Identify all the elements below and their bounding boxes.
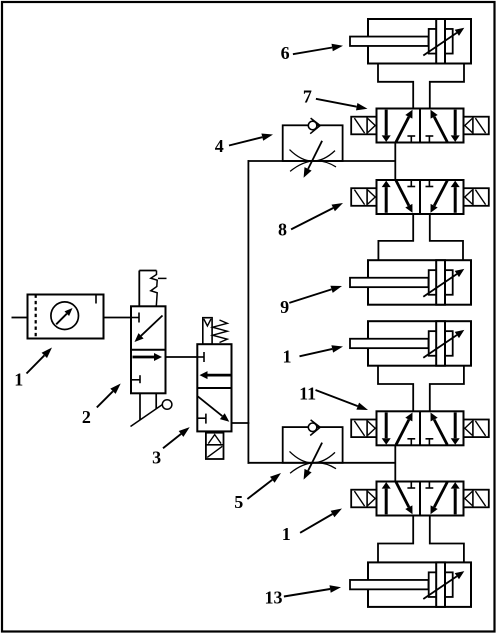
valve 3 crossing arrow (198, 396, 230, 422)
label 3 (152, 448, 161, 468)
solenoid pilot (right) of 7 (464, 117, 489, 135)
label 11 (299, 384, 316, 404)
cylinder 6 cushioning sleeve (429, 29, 453, 54)
valve 2 bottom-left port (131, 375, 140, 383)
label 13 pointer arrow (284, 585, 341, 596)
valve 12 left flow arrow (396, 482, 413, 514)
valve 7 right blocked port (426, 136, 434, 143)
label 6 (281, 43, 290, 63)
cylinder 6 adjustable-cushion arrow (423, 28, 464, 56)
label 7 pointer arrow (316, 99, 368, 111)
air service unit 1 body (28, 295, 104, 339)
cylinder 10 body (368, 321, 471, 366)
valve 3 plunger pilot (203, 318, 212, 345)
wire: supply riser (node S) (247, 160, 249, 464)
svg-text:11: 11 (299, 384, 316, 404)
label 5 (234, 492, 243, 512)
flow control 5 throttle arcs (290, 451, 337, 473)
cylinder 10 adjustable-cushion arrow (423, 330, 464, 358)
label 5 pointer arrow (247, 473, 281, 499)
wire: cylinder 6 to valve 7 right (430, 63, 464, 110)
valve 2 closing arrow (135, 316, 163, 343)
valve 2 body (131, 306, 166, 393)
cylinder 13 cushioning sleeve (429, 572, 453, 597)
label 9 (280, 297, 289, 317)
wire: valve 8 to cylinder 9 right (430, 214, 463, 261)
wire: valve 3 output to supply riser (231, 422, 250, 424)
label 9 pointer arrow (289, 286, 342, 303)
label 6 pointer arrow (293, 44, 343, 54)
valve 8 left exhaust arrow (382, 181, 391, 213)
label 7 (303, 87, 312, 107)
label 4 (215, 136, 224, 156)
wire: valve 2 output to valve 3 (165, 356, 199, 358)
cylinder 9 adjustable-cushion arrow (423, 269, 464, 297)
flow control 4 check valve (308, 118, 320, 134)
label 8 (278, 219, 287, 239)
valve 2 roller lever actuator (131, 393, 172, 426)
cylinder 6 piston rod (350, 37, 429, 46)
label 2 (82, 407, 91, 427)
valve 11 right blocked port (426, 439, 434, 446)
wire: valve 7 / valve 8 supply drop (394, 142, 396, 181)
solenoid pilot (left) of 11 (351, 420, 376, 438)
air service unit 1 pressure gauge (51, 302, 79, 330)
label 1 (283, 347, 292, 367)
valve 8 right flow arrow (431, 181, 448, 213)
svg-text:1: 1 (283, 347, 292, 367)
5/2 valve 12 body (377, 482, 464, 516)
label 1 pointer arrow (300, 345, 344, 356)
svg-text:1: 1 (282, 524, 291, 544)
valve 11 left flow arrow (396, 413, 413, 445)
valve 3 flow arrow (200, 371, 231, 379)
wire: supply stub into air service unit (12, 317, 28, 319)
valve 11 left exhaust arrow (382, 413, 391, 445)
wire: cylinder 10 to valve 11 right (430, 366, 464, 412)
solenoid pilot (left) of 7 (351, 117, 376, 135)
solenoid pilot (right) of 11 (464, 420, 489, 438)
solenoid pilot (right) of 8 (464, 188, 489, 206)
cylinder 13 piston rod (350, 580, 429, 589)
cylinder 10 piston (436, 321, 445, 366)
wire: cylinder 6 to valve 7 left (378, 63, 413, 110)
svg-text:1: 1 (14, 370, 23, 390)
svg-text:6: 6 (281, 43, 290, 63)
valve 3 solenoid actuator (206, 433, 224, 459)
air service unit 1 filter dashed line (35, 295, 37, 339)
valve 12 right blocked port (426, 481, 434, 488)
solenoid pilot (left) of 12 (351, 490, 376, 508)
valve 7 right flow arrow (431, 110, 448, 142)
label 3 pointer arrow (163, 427, 190, 448)
valve 7 left flow arrow (396, 110, 413, 142)
5/2 valve 7 body (377, 109, 464, 143)
cylinder 13 body (368, 562, 471, 607)
wire: valve 11 / valve 12 supply drop (394, 445, 396, 482)
valve 3 return spring (213, 320, 228, 343)
svg-text:4: 4 (215, 136, 224, 156)
flow control valve 4 body (283, 125, 343, 161)
valve 8 left blocked port (407, 180, 415, 187)
cylinder 10 piston rod (350, 339, 429, 348)
svg-text:3: 3 (152, 448, 161, 468)
valve 2 top-left port (131, 313, 139, 323)
svg-text:2: 2 (82, 407, 91, 427)
valve 12 left blocked port (407, 481, 415, 488)
svg-text:13: 13 (265, 587, 283, 607)
valve 11 right exhaust arrow (451, 413, 460, 445)
valve 8 right exhaust arrow (451, 181, 460, 213)
flow control 5 check valve (308, 420, 320, 436)
flow control 4 adjustment arrow (304, 141, 323, 178)
valve 2 return spring (139, 271, 166, 307)
flow control 4 throttle arcs (290, 150, 337, 172)
wire: flow line through flow control 4 (248, 160, 396, 162)
cylinder 9 cushioning sleeve (429, 270, 453, 295)
valve 3 bottom-left port (197, 414, 206, 424)
cylinder 9 piston rod (350, 278, 429, 287)
svg-text:9: 9 (280, 297, 289, 317)
valve 3 top-left port (197, 352, 204, 362)
label 8 pointer arrow (291, 203, 343, 229)
valve 2 flow arrow (133, 353, 163, 361)
cylinder 13 piston (436, 562, 445, 607)
svg-text:7: 7 (303, 87, 312, 107)
5/2 valve 8 body (377, 180, 464, 214)
label 1 pointer arrow (27, 348, 53, 374)
cylinder 9 piston (436, 260, 445, 305)
wire: valve 12 to cylinder 13 left (378, 516, 413, 563)
valve 3 body (197, 344, 231, 431)
label 1 (14, 370, 23, 390)
flow control 5 adjustment arrow (304, 443, 323, 480)
label 2 pointer arrow (97, 384, 121, 408)
valve 11 right flow arrow (431, 413, 448, 445)
solenoid pilot (left) of 8 (351, 188, 376, 206)
5/2 valve 11 body (377, 411, 464, 445)
flow control valve 5 body (283, 427, 343, 463)
cylinder 9 body (368, 260, 471, 305)
valve 8 right blocked port (426, 180, 434, 187)
valve 7 right exhaust arrow (451, 110, 460, 142)
valve 11 left blocked port (407, 439, 415, 446)
wire: air service unit to valve 2 (104, 317, 132, 319)
valve 12 right exhaust arrow (451, 482, 460, 514)
label 4 pointer arrow (229, 134, 273, 146)
svg-text:8: 8 (278, 219, 287, 239)
valve 7 left blocked port (407, 136, 415, 143)
air service unit 1 port tick (95, 295, 97, 304)
valve 12 right flow arrow (431, 482, 448, 514)
label 11 pointer arrow (316, 390, 369, 410)
valve 8 left flow arrow (396, 181, 413, 213)
label 13 (265, 587, 283, 607)
wire: cylinder 10 to valve 11 left (378, 366, 413, 412)
label 1 (282, 524, 291, 544)
valve 7 left exhaust arrow (382, 110, 391, 142)
valve 12 left exhaust arrow (382, 482, 391, 514)
cylinder 6 body (368, 19, 471, 64)
wire: valve 12 to cylinder 13 right (430, 516, 464, 563)
wire: flow line through flow control 5 (248, 462, 396, 464)
cylinder 13 adjustable-cushion arrow (423, 571, 464, 599)
wire: valve 8 to cylinder 9 left (378, 214, 413, 261)
cylinder 10 cushioning sleeve (429, 331, 453, 356)
solenoid pilot (right) of 12 (464, 490, 489, 508)
svg-text:5: 5 (234, 492, 243, 512)
cylinder 6 piston (436, 19, 445, 64)
label 1 pointer arrow (300, 509, 342, 533)
